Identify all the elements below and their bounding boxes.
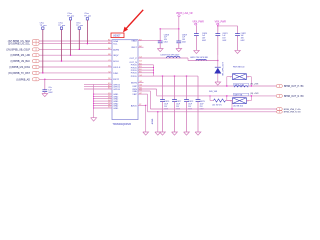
refdes highlight box U0007 — [111, 33, 124, 38]
capacitor C0819 — [177, 29, 180, 41]
svg-text:VRX_PWR: VRX_PWR — [215, 21, 227, 23]
ground for C0830 — [42, 94, 48, 97]
inductor L0877 — [233, 93, 248, 96]
svg-text:OUT_P: OUT_P — [130, 58, 138, 60]
svg-text:VBST: VBST — [131, 47, 137, 49]
ground for C0822 — [235, 50, 241, 53]
svg-text:(I) BP6B_AD: (I) BP6B_AD — [16, 78, 30, 81]
wire OUT_P — [138, 85, 276, 88]
svg-text:25V: 25V — [164, 106, 168, 108]
svg-text:VNE: VNE — [132, 91, 137, 93]
ground for D0805 — [215, 82, 221, 85]
svg-text:1uF: 1uF — [164, 37, 167, 39]
svg-text:BCLK: BCLK — [113, 61, 119, 63]
svg-text:C0822: C0822 — [241, 33, 246, 35]
wire VNE_P — [138, 90, 150, 93]
wire GND pin 2 — [94, 95, 112, 98]
wire to C0822 — [218, 25, 238, 28]
wire GPIO0 — [84, 88, 112, 91]
svg-text:L6x NB 100: L6x NB 100 — [233, 105, 243, 107]
svg-text:C9xx: C9xx — [84, 13, 89, 15]
capacitor C0818 — [159, 29, 162, 41]
svg-text:(N) +2V8: (N) +2V8 — [250, 93, 259, 95]
wire PVDD cap bus — [154, 75, 199, 78]
port connector J2 — [32, 42, 39, 45]
svg-text:0402: 0402 — [222, 40, 226, 42]
svg-text:PVDD: PVDD — [131, 76, 137, 78]
svg-text:E1: E1 — [108, 88, 110, 90]
svg-text:F7: F7 — [108, 107, 110, 109]
wire BP6B_US_SCL to U0007 — [39, 42, 112, 45]
svg-text:L0877 NB: L0877 NB — [234, 94, 243, 96]
svg-text:0402: 0402 — [202, 40, 206, 42]
svg-text:GPIO0: GPIO0 — [113, 89, 120, 91]
svg-text:F6: F6 — [108, 104, 110, 106]
wire GND pin 1 — [94, 93, 112, 96]
wire GPIO2 — [84, 83, 112, 86]
svg-text:1uF: 1uF — [202, 35, 205, 37]
svg-text:(I) BP6B_US_BLK: (I) BP6B_US_BLK — [10, 60, 30, 63]
svg-text:GND: GND — [113, 103, 118, 105]
svg-text:C0879: C0879 — [200, 101, 205, 103]
svg-text:GND: GND — [113, 101, 118, 103]
capacitor C0821 — [216, 26, 219, 34]
svg-text:F1: F1 — [108, 93, 110, 95]
svg-text:C9xx: C9xx — [76, 23, 81, 25]
svg-text:1uF: 1uF — [222, 35, 225, 37]
wire GPIO1 — [84, 85, 112, 88]
svg-text:BP6B_VNE_N <B>: BP6B_VNE_N <B> — [284, 111, 302, 114]
port connector J7 — [32, 71, 39, 74]
svg-text:C2: C2 — [108, 72, 110, 74]
svg-text:A1: A1 — [108, 39, 110, 42]
capacitor C0879 — [197, 76, 200, 99]
wire VRX_PWR down — [217, 25, 220, 30]
svg-text:VR_GPS_OUT: VR_GPS_OUT — [223, 62, 225, 76]
svg-text:0402: 0402 — [48, 92, 52, 94]
svg-text:F2: F2 — [108, 95, 110, 97]
svg-text:TPA6304QDDVR: TPA6304QDDVR — [113, 123, 132, 126]
svg-text:16V: 16V — [241, 38, 245, 40]
svg-text:16V: 16V — [222, 38, 226, 40]
svg-text:IRQZ: IRQZ — [113, 55, 119, 57]
svg-text:0402: 0402 — [182, 42, 186, 44]
svg-text:2: 2 — [248, 101, 249, 103]
wire BP6B_TX_RST to U0007 — [39, 72, 112, 75]
wire BP6B_I2S_DIN1 to U0007 — [39, 66, 112, 69]
svg-text:DIN1: DIN1 — [113, 73, 119, 75]
wire BP6B_US_BLK to U0007 — [39, 60, 112, 63]
svg-text:BSTN: BSTN — [131, 82, 137, 84]
wire FB0876 bypass — [227, 75, 233, 77]
inductor L0819 — [167, 56, 181, 58]
port connector BP6B_OUT_N — [276, 94, 282, 97]
wire power bus — [160, 28, 179, 31]
svg-text:BP6B_VNE_P <B>: BP6B_VNE_P <B> — [284, 108, 302, 111]
annotation arrow — [125, 10, 143, 30]
wire VBAT to C0818 — [138, 39, 160, 42]
port connector BP6B_OUT_P — [276, 85, 282, 88]
svg-text:C0876: C0876 — [164, 101, 169, 103]
port connector J1 — [32, 39, 39, 42]
svg-text:D1: D1 — [108, 66, 110, 68]
svg-text:C0818: C0818 — [164, 34, 169, 36]
svg-text:PVDD: PVDD — [131, 65, 137, 67]
svg-text:B2: B2 — [108, 54, 110, 56]
svg-text:C0x: C0x — [48, 87, 51, 89]
wire BP6B_UB_GSLP to U0007 — [39, 48, 112, 51]
svg-text:D4: D4 — [139, 61, 141, 63]
svg-text:VNN: VNN — [132, 89, 137, 91]
wire BP6B_I2S_LR0 to U0007 — [39, 54, 112, 57]
svg-text:GND: GND — [113, 96, 118, 98]
svg-text:C0877: C0877 — [176, 101, 181, 103]
port connector J4 — [32, 54, 39, 57]
ground under VNE_N — [155, 132, 161, 135]
wire TP905 to bus — [86, 20, 89, 44]
capacitor C0820 — [195, 24, 198, 27]
svg-text:GND: GND — [113, 99, 118, 101]
ground for C0820 — [194, 50, 200, 53]
svg-text:C0878: C0878 — [188, 101, 193, 103]
ground bus wire — [92, 84, 95, 117]
wire OUTP to filter — [138, 57, 188, 60]
svg-text:VBP: VBP — [132, 94, 137, 96]
port connector J3 — [32, 48, 39, 51]
port connector BP6B_VNE_N — [277, 111, 283, 114]
ground for C0819 — [176, 49, 182, 52]
op-amp U0007 IC body — [112, 40, 138, 120]
capacitor C0877 — [173, 76, 176, 99]
wire FB0877 bypass — [227, 99, 233, 101]
capacitor C0830 — [44, 79, 45, 80]
wire VNE_N — [138, 93, 148, 96]
wire VBST stub — [138, 46, 144, 49]
wire GND pin 5 — [94, 102, 112, 105]
port connector J5 — [32, 60, 39, 63]
svg-text:C9xx: C9xx — [40, 23, 45, 25]
svg-text:LRCLK: LRCLK — [113, 67, 121, 69]
svg-text:GPIO2: GPIO2 — [113, 84, 120, 86]
svg-text:25V: 25V — [176, 106, 180, 108]
svg-text:1: 1 — [230, 77, 231, 79]
svg-text:0402: 0402 — [241, 40, 245, 42]
wire BP6B_US_SDA to U0007 — [39, 40, 112, 43]
svg-text:C0821: C0821 — [222, 33, 227, 35]
svg-text:C9xx: C9xx — [67, 13, 72, 15]
inductor L0820 — [196, 59, 207, 60]
svg-text:16V: 16V — [202, 38, 206, 40]
svg-text:D2: D2 — [108, 78, 110, 80]
svg-text:GND: GND — [113, 94, 118, 96]
svg-text:25V: 25V — [188, 106, 192, 108]
ground for C0818 — [157, 49, 163, 52]
svg-text:C0820: C0820 — [202, 33, 207, 35]
wire TP901 to bus — [41, 29, 44, 73]
port connector BP6B_VNE_P — [277, 108, 283, 111]
diode D0805 TVS — [217, 55, 220, 67]
svg-text:(I) BP6B_I2S_DIN1: (I) BP6B_I2S_DIN1 — [9, 66, 30, 69]
svg-text:1uF: 1uF — [48, 89, 52, 91]
port connector J8 — [32, 78, 39, 81]
svg-text:0402: 0402 — [164, 42, 168, 44]
svg-text:L0819 TDK GPS 0407: L0819 TDK GPS 0407 — [161, 54, 180, 56]
svg-text:(3V) BP6B_TX_RST: (3V) BP6B_TX_RST — [8, 72, 30, 75]
ground for C0879 — [195, 132, 201, 135]
ground for C0878 — [184, 132, 190, 135]
svg-text:SH5_V08: SH5_V08 — [209, 91, 217, 93]
wire GND pin 4 — [94, 100, 112, 103]
svg-text:U0007: U0007 — [113, 35, 121, 38]
svg-text:25V: 25V — [200, 106, 204, 108]
svg-text:2: 2 — [248, 77, 249, 79]
ground under AVDD — [143, 132, 149, 135]
svg-text:VNP: VNP — [132, 86, 137, 88]
ferrite bead FB0877 (NB) — [233, 98, 247, 104]
svg-text:PVDD: PVDD — [131, 73, 137, 75]
svg-text:GND: GND — [113, 108, 118, 110]
svg-text:C1: C1 — [108, 60, 110, 62]
svg-text:F4: F4 — [108, 100, 110, 102]
svg-text:10uF: 10uF — [176, 104, 180, 106]
wire PVDD tie — [138, 64, 154, 67]
wire GND pin 7 — [94, 107, 112, 110]
svg-text:BP6B_OUT_P <B>: BP6B_OUT_P <B> — [284, 85, 305, 88]
wire TP904 to bus — [78, 29, 81, 49]
svg-text:1: 1 — [230, 101, 231, 103]
svg-text:(P) +2V8: (P) +2V8 — [250, 83, 259, 85]
svg-text:PVDD: PVDD — [131, 70, 137, 72]
svg-text:PVDD: PVDD — [131, 67, 137, 69]
svg-text:AGND: AGND — [151, 118, 154, 124]
inductor L0876 — [233, 84, 248, 87]
svg-text:x05 1W 5%: x05 1W 5% — [212, 105, 222, 107]
wire GND pin 3 — [94, 97, 112, 100]
svg-text:(3V) BP6B_UB_GSLP: (3V) BP6B_UB_GSLP — [6, 48, 30, 51]
wire GND pin 6 — [94, 104, 112, 107]
svg-text:1uF: 1uF — [182, 37, 185, 39]
svg-text:16V: 16V — [182, 39, 186, 41]
svg-text:L0820 TDK GPS 888: L0820 TDK GPS 888 — [190, 57, 208, 59]
capacitor C0822 — [236, 26, 239, 34]
svg-text:C0819: C0819 — [182, 34, 187, 36]
svg-text:B1: B1 — [108, 42, 110, 44]
wire AVDD to ground — [138, 104, 146, 107]
svg-text:10uF: 10uF — [200, 104, 204, 106]
wire VNE_N to ground — [157, 111, 158, 112]
capacitor C0878 — [185, 76, 188, 99]
svg-text:10uF: 10uF — [164, 104, 168, 106]
svg-text:OUT_N: OUT_N — [129, 62, 137, 64]
svg-text:(3V) BP6B_US_SCL: (3V) BP6B_US_SCL — [8, 43, 31, 46]
svg-text:RSTZ: RSTZ — [113, 79, 119, 81]
svg-text:BP6B_OUT_N <B>: BP6B_OUT_N <B> — [284, 95, 305, 98]
svg-text:A2: A2 — [108, 47, 110, 50]
wire OUT_N — [138, 88, 157, 91]
svg-text:16V: 16V — [164, 39, 168, 41]
wire BSTN stub — [138, 81, 144, 84]
svg-text:10uF: 10uF — [188, 104, 192, 106]
svg-text:VRX_PWR: VRX_PWR — [192, 21, 204, 23]
svg-text:F3: F3 — [108, 97, 110, 99]
wire TP903 to bus — [69, 20, 72, 55]
wire TP902 to bus — [60, 29, 63, 61]
svg-text:GPIO1: GPIO1 — [113, 87, 120, 89]
svg-text:F5: F5 — [108, 102, 110, 104]
svg-text:(I) BP6B_I2S_LR0: (I) BP6B_I2S_LR0 — [10, 54, 30, 57]
svg-text:FB76 NB 100: FB76 NB 100 — [233, 67, 244, 69]
ground for C0877 — [172, 132, 178, 135]
svg-text:E1: E1 — [108, 83, 110, 85]
ground symbol for U0007 — [91, 118, 97, 121]
capacitor C0876 — [161, 76, 164, 99]
port connector J6 — [32, 65, 39, 68]
svg-text:C9xx: C9xx — [58, 23, 63, 25]
svg-text:1uF: 1uF — [241, 35, 244, 37]
wire VRRX_LNA_VR feed — [178, 17, 181, 29]
svg-text:GND: GND — [113, 106, 118, 108]
ground for C0876 — [160, 132, 166, 135]
wire BP6B_AD to U0007 — [39, 78, 112, 81]
svg-text:E1: E1 — [108, 85, 110, 87]
